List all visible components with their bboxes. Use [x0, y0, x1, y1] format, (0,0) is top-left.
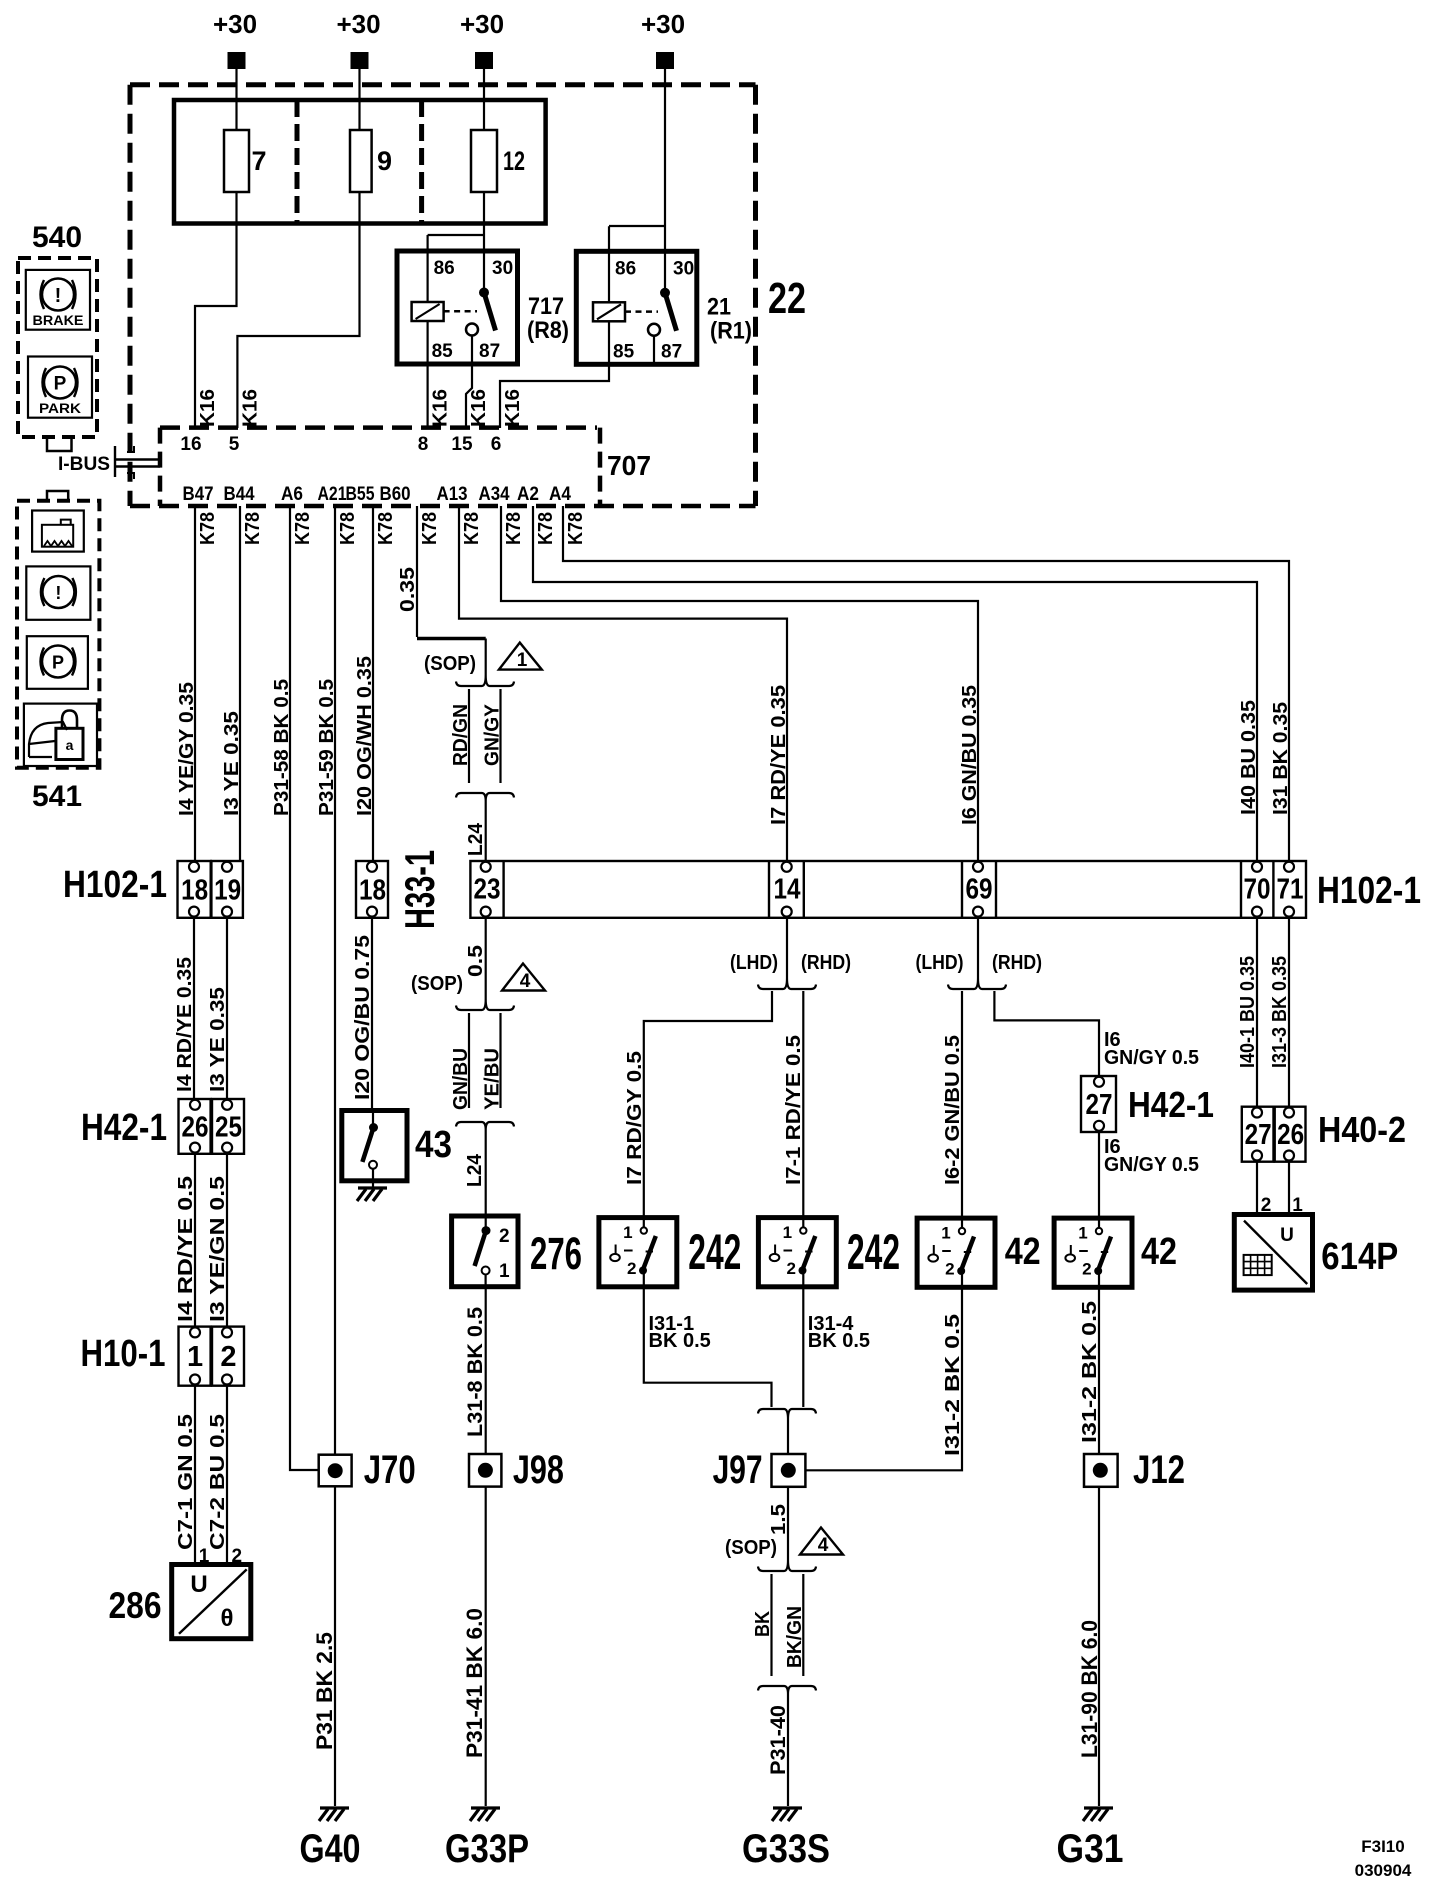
wire 42 no.1 I31-2 BK 0.5 to J97	[805, 1287, 962, 1470]
svg-text:12: 12	[503, 146, 525, 176]
wire H102-1:69 down	[977, 918, 979, 978]
svg-text:K78: K78	[292, 512, 314, 545]
wire H10-1:2 to 286 pin 2	[226, 1386, 228, 1565]
wire H10-1:1 to 286 pin 1	[194, 1386, 196, 1565]
svg-text:H102-1: H102-1	[63, 864, 167, 906]
svg-text:I31-2 BK 0.5: I31-2 BK 0.5	[1079, 1301, 1101, 1443]
svg-text:(RHD): (RHD)	[801, 952, 851, 974]
svg-text:I7 RD/YE 0.35: I7 RD/YE 0.35	[768, 685, 790, 825]
svg-text:15: 15	[451, 434, 473, 455]
wire H102-1:19 to H42-1:25	[226, 918, 228, 1099]
svg-text:85: 85	[432, 341, 454, 362]
svg-text:717: 717	[528, 293, 564, 320]
svg-text:030904: 030904	[1355, 1861, 1412, 1880]
splice brace bottom (merge)	[456, 793, 514, 801]
svg-text:A21: A21	[318, 484, 347, 505]
I-BUS connector symbol	[114, 446, 116, 477]
wire +30 no.2 to fuse 9	[358, 68, 360, 130]
svg-text:2: 2	[499, 1226, 510, 1247]
svg-text:H10-1: H10-1	[81, 1333, 166, 1375]
svg-text:J97: J97	[713, 1448, 763, 1492]
svg-text:B44: B44	[224, 484, 255, 505]
alternative wire BK	[770, 1574, 772, 1676]
wire +30 no.3 to fuse 12	[483, 68, 485, 130]
wire A21 (K78) to junction J70	[334, 506, 336, 1455]
svg-text:+30: +30	[213, 9, 257, 39]
svg-text:276: 276	[530, 1228, 582, 1279]
wire +30 no.1 to fuse 7	[235, 68, 237, 130]
wire L24 to H33-1 pin 23	[485, 801, 487, 861]
svg-text:7: 7	[252, 146, 267, 176]
wire +30 no.4 to relay 21 pin 30	[664, 68, 666, 292]
svg-text:BK 0.5: BK 0.5	[649, 1330, 711, 1352]
brake fluid switch 42 no.2	[1054, 1218, 1132, 1287]
junction J70	[319, 1455, 352, 1487]
splice brace top (BK|BK/GN)	[758, 1560, 816, 1571]
footnote triangle 1	[499, 643, 542, 670]
svg-text:A13: A13	[437, 484, 468, 505]
ground G31	[1084, 1806, 1113, 1809]
svg-text:286: 286	[109, 1585, 162, 1626]
alternative wire BK/GN	[802, 1574, 804, 1676]
wire H40-2:26 to 614P pin 1	[1288, 1162, 1290, 1215]
wire 276 to junction J98	[485, 1287, 487, 1454]
fuse holder box outline	[174, 100, 546, 224]
svg-text:I4 RD/YE 0.35: I4 RD/YE 0.35	[174, 957, 196, 1092]
svg-text:G33P: G33P	[445, 1827, 529, 1871]
svg-text:I6-2 GN/BU 0.5: I6-2 GN/BU 0.5	[942, 1035, 964, 1185]
connector H10-1 pin 2	[212, 1327, 244, 1386]
wire merge to J97	[787, 1419, 789, 1454]
wire 242 no.2 I31-4 BK 0.5 to merge	[802, 1287, 804, 1407]
svg-text:42: 42	[1141, 1231, 1177, 1273]
svg-text:1: 1	[623, 1223, 632, 1242]
svg-text:K78: K78	[419, 512, 441, 545]
svg-text:I3 YE 0.35: I3 YE 0.35	[207, 987, 229, 1092]
wire fuse 9 to 707 pin 5	[237, 192, 359, 428]
svg-text:F3I10: F3I10	[1361, 1837, 1404, 1856]
svg-text:(LHD): (LHD)	[730, 952, 778, 974]
svg-text:P31-41 BK 6.0: P31-41 BK 6.0	[462, 1608, 487, 1758]
connector H42-1 pin 27	[1081, 1076, 1116, 1132]
svg-text:2: 2	[945, 1259, 954, 1278]
splice brace bottom (merge) 3	[758, 1686, 816, 1694]
svg-text:30: 30	[673, 258, 694, 279]
connector pin 14	[782, 862, 792, 872]
svg-text:U: U	[1280, 1225, 1294, 1246]
switch 43	[342, 1111, 407, 1181]
connector H102-1 pin 19	[211, 861, 243, 918]
split brace under 69	[948, 978, 1006, 989]
junction J98	[469, 1454, 501, 1487]
svg-text:1: 1	[1078, 1224, 1087, 1243]
svg-text:(LHD): (LHD)	[916, 952, 964, 974]
svg-text:I4 RD/YE 0.5: I4 RD/YE 0.5	[175, 1176, 197, 1322]
svg-text:1: 1	[517, 650, 528, 671]
svg-text:86: 86	[615, 258, 636, 279]
svg-text:43: 43	[415, 1124, 452, 1166]
svg-text:I40 BU 0.35: I40 BU 0.35	[1238, 700, 1260, 815]
svg-text:P: P	[52, 653, 64, 673]
svg-text:42: 42	[1005, 1231, 1041, 1273]
svg-text:H102-1: H102-1	[1317, 870, 1421, 912]
junction J12	[1084, 1454, 1118, 1487]
bridge tab below 540	[47, 437, 72, 451]
svg-text:K78: K78	[461, 512, 483, 545]
splice brace top (GN/BU|YE/BU)	[456, 999, 514, 1010]
svg-text:707: 707	[607, 450, 651, 481]
svg-text:H42-1: H42-1	[1128, 1084, 1214, 1125]
clock/display module 614P	[1234, 1215, 1312, 1291]
switch 276	[452, 1216, 518, 1287]
wire A6 (K78) to junction J70	[290, 506, 319, 1470]
svg-text:A6: A6	[281, 484, 303, 505]
svg-text:G31: G31	[1057, 1827, 1124, 1871]
svg-text:K78: K78	[535, 512, 557, 545]
svg-text:L31-8 BK 0.5: L31-8 BK 0.5	[464, 1307, 487, 1437]
svg-text:I31-2 BK 0.5: I31-2 BK 0.5	[942, 1314, 964, 1456]
bridge tab above 541	[47, 491, 68, 501]
svg-text:G33S: G33S	[742, 1827, 830, 1871]
svg-text:18: 18	[181, 874, 208, 906]
svg-text:71: 71	[1277, 874, 1304, 906]
car lock warning icon	[24, 704, 97, 766]
parking brake switch 242 no.1	[599, 1218, 677, 1287]
svg-text:YE/BU: YE/BU	[481, 1048, 503, 1110]
svg-text:69: 69	[966, 874, 993, 906]
svg-text:I31 BK 0.35: I31 BK 0.35	[1270, 702, 1292, 815]
svg-text:4: 4	[520, 971, 531, 992]
svg-text:K16: K16	[430, 389, 452, 427]
svg-text:6: 6	[491, 434, 502, 455]
svg-text:2: 2	[786, 1259, 795, 1278]
connector H40-2 pin 27	[1242, 1107, 1274, 1162]
wire RHD to H42-1 pin 27	[994, 991, 1099, 1076]
svg-text:I-BUS: I-BUS	[58, 454, 110, 475]
svg-text:BK/GN: BK/GN	[784, 1606, 806, 1668]
wire H102-1:18 to H42-1:26	[193, 918, 195, 1099]
wire relay 21 pin 85 to 707 pin 6	[500, 321, 609, 428]
wire relay 717 pin 87 to 707 pin 15	[466, 336, 472, 429]
svg-text:C7-2 BU 0.5: C7-2 BU 0.5	[207, 1414, 229, 1550]
wire P31-40 to ground G33S	[787, 1694, 789, 1806]
svg-text:19: 19	[214, 874, 241, 906]
svg-text:H42-1: H42-1	[81, 1107, 167, 1149]
svg-text:GN/BU: GN/BU	[450, 1048, 472, 1110]
svg-text:+30: +30	[460, 9, 504, 39]
svg-text:2: 2	[220, 1341, 236, 1373]
svg-text:L24: L24	[464, 1153, 486, 1187]
svg-text:30: 30	[492, 258, 513, 279]
svg-text:(RHD): (RHD)	[992, 952, 1042, 974]
wire relay 717 pin 85 to 707 pin 8	[427, 321, 429, 428]
wire LHD I7 RD/GY 0.5 to switch 242 no.1	[644, 991, 772, 1218]
ground G33P	[471, 1806, 500, 1809]
wire B47 (K78) to H102-1 pin 18	[194, 506, 196, 861]
svg-text:18: 18	[359, 874, 386, 906]
wire J98 to ground G33P	[485, 1487, 487, 1806]
svg-text:P31 BK 2.5: P31 BK 2.5	[312, 1632, 337, 1750]
junction J97	[772, 1454, 806, 1487]
svg-text:A4: A4	[549, 484, 571, 505]
svg-text:1: 1	[783, 1223, 792, 1242]
svg-text:P31-58 BK 0.5: P31-58 BK 0.5	[271, 679, 293, 816]
battery warning icon	[32, 511, 84, 552]
warning cluster 541 dashed box	[17, 501, 99, 768]
wire B60 (K78) to splice	[416, 506, 418, 637]
wire J12 to ground G31	[1098, 1487, 1100, 1806]
dashed enclosure box 22 (fuse/relay box)	[130, 82, 756, 87]
svg-text:I3 YE 0.35: I3 YE 0.35	[221, 711, 243, 816]
instrument cluster 540 dashed box	[18, 258, 97, 437]
svg-text:H40-2: H40-2	[1318, 1109, 1406, 1150]
svg-text:K16: K16	[468, 389, 490, 427]
svg-text:540: 540	[32, 221, 82, 254]
svg-text:GN/GY 0.5: GN/GY 0.5	[1104, 1047, 1199, 1069]
alternative wire YE/BU	[499, 1013, 501, 1108]
wire tap +30 no.4 to relay 21 pin 86	[609, 225, 665, 227]
svg-text:K16: K16	[502, 389, 524, 427]
connector H42-1 pin 25	[212, 1099, 244, 1154]
wire H33-1:18 to switch 43	[371, 918, 373, 1111]
svg-text:K78: K78	[242, 512, 264, 545]
svg-text:U: U	[190, 1571, 207, 1598]
connector pin 69	[973, 862, 983, 872]
svg-text:2: 2	[627, 1259, 636, 1278]
svg-text:I4 YE/GY 0.35: I4 YE/GY 0.35	[176, 682, 198, 816]
svg-text:I3 YE/GN 0.5: I3 YE/GN 0.5	[207, 1176, 229, 1322]
wire A13 (K78) to H102-1 pin 14	[459, 506, 787, 861]
svg-text:K16: K16	[239, 389, 261, 427]
svg-text:B47: B47	[183, 484, 214, 505]
footnote triangle 4 (2)	[800, 1528, 843, 1555]
svg-text:J70: J70	[364, 1448, 416, 1492]
ground G33S	[773, 1806, 802, 1809]
svg-text:I31-3 BK 0.35: I31-3 BK 0.35	[1269, 956, 1291, 1068]
svg-text:I7 RD/GY 0.5: I7 RD/GY 0.5	[624, 1051, 646, 1185]
splice brace top (RD/GN|GN/GY)	[456, 675, 514, 686]
splice brace bottom (merge) 2	[456, 1122, 514, 1130]
relay 21 (R1)	[576, 251, 697, 364]
merge brace above J97	[758, 1409, 816, 1419]
svg-text:B55: B55	[346, 484, 375, 505]
svg-text:0.5: 0.5	[465, 945, 487, 977]
svg-text:I20 OG/BU 0.75: I20 OG/BU 0.75	[352, 935, 374, 1100]
svg-text:J12: J12	[1133, 1448, 1185, 1492]
wire relay 21 pin 87 stub	[653, 336, 655, 364]
svg-text:1: 1	[187, 1341, 203, 1373]
svg-text:1: 1	[499, 1261, 510, 1282]
power feed terminal square 1	[229, 53, 245, 68]
svg-text:(SOP): (SOP)	[411, 973, 463, 995]
svg-text:C7-1 GN 0.5: C7-1 GN 0.5	[175, 1414, 197, 1550]
connector H42-1 pin 26	[179, 1099, 211, 1154]
wire L24 to switch 276	[485, 1130, 487, 1216]
wire H102-1:14 down	[786, 918, 788, 978]
connector bar H102-1/H33-1	[470, 861, 1306, 918]
svg-text:L31-90 BK 6.0: L31-90 BK 6.0	[1077, 1620, 1102, 1758]
wire fuse 7 to 707 pin 16	[195, 192, 237, 428]
svg-text:K78: K78	[503, 512, 525, 545]
alternative wire RD/GN	[468, 689, 470, 783]
parking brake switch 242 no.2	[758, 1218, 836, 1287]
wire B55 (K78) to H33-1 pin 18	[372, 506, 374, 861]
svg-text:27: 27	[1245, 1119, 1272, 1151]
alternative wire GN/GY	[499, 689, 501, 783]
svg-text:87: 87	[479, 341, 500, 362]
svg-text:541: 541	[32, 780, 82, 813]
park warning icon (541)	[27, 636, 88, 689]
ground below 43	[372, 1181, 374, 1187]
brake warning icon (541)	[26, 566, 90, 619]
split brace under 14	[758, 978, 816, 989]
svg-text:PARK: PARK	[39, 401, 81, 416]
svg-text:1.5: 1.5	[768, 1504, 790, 1535]
ground G40	[320, 1806, 349, 1809]
svg-text:GN/GY: GN/GY	[481, 703, 503, 766]
svg-text:(R8): (R8)	[527, 317, 569, 344]
svg-text:85: 85	[613, 341, 635, 362]
wire LHD I6-2 GN/BU 0.5 to switch 42 no.1	[961, 991, 963, 1218]
svg-text:J98: J98	[513, 1448, 564, 1492]
svg-text:H33-1: H33-1	[396, 850, 443, 929]
svg-text:I40-1 BU 0.35: I40-1 BU 0.35	[1237, 956, 1259, 1068]
svg-text:242: 242	[847, 1224, 900, 1280]
svg-text:87: 87	[661, 341, 682, 362]
svg-text:I6 GN/BU 0.35: I6 GN/BU 0.35	[959, 685, 981, 825]
power feed terminal square 2	[352, 53, 368, 68]
svg-text:70: 70	[1244, 874, 1271, 906]
footnote triangle 4	[502, 964, 545, 991]
svg-text:+30: +30	[336, 9, 380, 39]
connector pin 23	[481, 862, 491, 872]
connector pin 71	[1284, 862, 1294, 872]
svg-text:K16: K16	[197, 389, 219, 427]
svg-text:B60: B60	[380, 484, 411, 505]
wire H40-2:27 to 614P pin 2	[1256, 1162, 1258, 1215]
BRAKE warning lamp icon	[26, 270, 90, 330]
svg-text:22: 22	[768, 274, 806, 323]
power feed terminal square 4	[657, 53, 673, 68]
wire J70 to ground G40	[334, 1486, 336, 1806]
svg-text:BRAKE: BRAKE	[33, 313, 84, 328]
wire H42-1:27 to switch 42 no.2	[1098, 1132, 1100, 1218]
wire 42 no.2 I31-2 BK 0.5 to J12	[1098, 1287, 1100, 1454]
connector H10-1 pin 1	[179, 1327, 211, 1386]
control module 707 dashed box	[160, 425, 597, 430]
PARK warning lamp icon	[28, 357, 92, 418]
wire A2 (K78) to H102-1 pin 70	[533, 506, 1257, 861]
svg-text:θ: θ	[221, 1605, 234, 1632]
svg-text:9: 9	[377, 146, 392, 176]
svg-text:L24: L24	[465, 822, 487, 856]
svg-text:I7-1 RD/YE 0.5: I7-1 RD/YE 0.5	[783, 1035, 805, 1185]
svg-text:!: !	[55, 583, 61, 603]
svg-text:G40: G40	[300, 1827, 361, 1871]
svg-text:16: 16	[180, 434, 201, 455]
wire H42-1:26 to H10-1:1	[194, 1154, 196, 1327]
brake fluid switch 42 no.1	[917, 1218, 995, 1287]
connector H102-1 pin 18	[178, 861, 211, 918]
svg-text:I20 OG/WH 0.35: I20 OG/WH 0.35	[354, 656, 376, 816]
wire 242 no.1 I31-1 BK 0.5 to merge	[644, 1287, 772, 1407]
svg-text:86: 86	[434, 258, 455, 279]
voltage gauge 286	[172, 1565, 251, 1639]
fuse 7	[224, 130, 249, 192]
wire tap fuse 12 to relay 717 pin 86	[428, 234, 484, 236]
svg-text:25: 25	[215, 1111, 242, 1143]
svg-text:23: 23	[474, 874, 501, 906]
svg-text:21: 21	[707, 293, 731, 320]
wire A4 (K78) to H102-1 pin 71	[563, 506, 1289, 861]
svg-text:26: 26	[182, 1111, 209, 1143]
svg-text:A34: A34	[479, 484, 510, 505]
svg-text:P: P	[54, 374, 67, 395]
svg-text:26: 26	[1277, 1119, 1304, 1151]
svg-text:K78: K78	[375, 512, 397, 545]
wire H102-1:71 to H40-2:26	[1288, 918, 1290, 1107]
wire J97 down 1.5	[787, 1487, 789, 1560]
svg-text:K78: K78	[565, 512, 587, 545]
svg-text:242: 242	[688, 1224, 741, 1280]
svg-text:GN/GY 0.5: GN/GY 0.5	[1104, 1154, 1199, 1176]
wire H102-1:70 to H40-2:27	[1256, 918, 1258, 1107]
connector pin 70	[1252, 862, 1262, 872]
svg-text:14: 14	[774, 874, 801, 906]
svg-text:(SOP): (SOP)	[725, 1537, 777, 1559]
svg-text:P31-40: P31-40	[767, 1705, 790, 1775]
relay 717 (R8)	[397, 251, 518, 364]
svg-text:(SOP): (SOP)	[424, 653, 476, 675]
svg-text:27: 27	[1086, 1089, 1113, 1121]
svg-text:BK: BK	[752, 1611, 774, 1637]
svg-text:A2: A2	[517, 484, 539, 505]
wire fuse 12 to relay 717 pin 30	[483, 192, 485, 293]
power feed terminal square 3	[476, 53, 492, 68]
svg-text:1: 1	[941, 1224, 950, 1243]
svg-text:K78: K78	[337, 512, 359, 545]
svg-text:8: 8	[418, 434, 429, 455]
wire H33-1:23 down	[485, 918, 487, 999]
svg-text:P31-59 BK 0.5: P31-59 BK 0.5	[316, 679, 338, 816]
alternative wire GN/BU	[468, 1013, 470, 1108]
wire A34 (K78) to H102-1 pin 69	[501, 506, 978, 861]
svg-text:!: !	[55, 285, 62, 307]
wire RHD I7-1 RD/YE 0.5 to switch 242 no.2	[802, 991, 804, 1218]
svg-text:RD/GN: RD/GN	[450, 704, 472, 766]
connector H33-1 pin 18	[356, 861, 388, 918]
svg-text:4: 4	[818, 1535, 829, 1556]
fuse 9	[350, 130, 372, 192]
fuse 12	[471, 130, 497, 192]
svg-text:a: a	[66, 737, 74, 753]
wire B44 (K78) to H102-1 pin 19	[239, 506, 241, 861]
svg-text:614P: 614P	[1321, 1236, 1398, 1278]
svg-text:(R1): (R1)	[710, 317, 752, 344]
svg-text:K78: K78	[197, 512, 219, 545]
wire H42-1:25 to H10-1:2	[226, 1154, 228, 1327]
svg-text:0.35: 0.35	[397, 567, 419, 612]
svg-text:5: 5	[229, 434, 240, 455]
svg-text:+30: +30	[641, 9, 685, 39]
connector H40-2 pin 26	[1275, 1107, 1306, 1162]
svg-text:BK 0.5: BK 0.5	[808, 1330, 870, 1352]
svg-text:2: 2	[1082, 1259, 1091, 1278]
